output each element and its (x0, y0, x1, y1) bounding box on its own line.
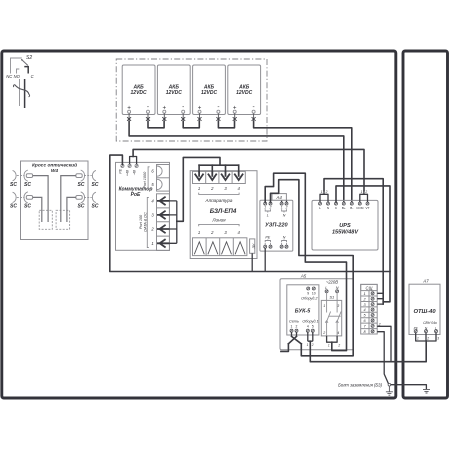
svg-text:155W/48V: 155W/48V (332, 230, 359, 236)
svg-text:Port 1000: Port 1000 (143, 171, 147, 188)
svg-text:SC: SC (78, 204, 85, 210)
svg-text:1: 1 (361, 190, 363, 194)
svg-text:4: 4 (337, 331, 339, 335)
svg-text:А4: А4 (276, 195, 283, 200)
svg-text:УЗП-220: УЗП-220 (265, 223, 288, 229)
svg-text:N: N (283, 236, 286, 240)
svg-text:2: 2 (269, 205, 272, 209)
svg-text:VT: VT (366, 206, 370, 210)
svg-text:NO: NO (14, 74, 21, 79)
svg-text:4: 4 (307, 325, 309, 329)
svg-text:SC: SC (78, 182, 85, 188)
svg-text:Оборуд.1: Оборуд.1 (302, 319, 318, 323)
svg-text:PE: PE (265, 236, 270, 240)
svg-text:2: 2 (337, 343, 340, 347)
svg-text:+48: +48 (126, 170, 130, 176)
svg-text:N: N (336, 286, 339, 290)
svg-text:B-: B- (350, 206, 353, 210)
svg-text:12VDC: 12VDC (166, 90, 183, 96)
svg-text:1: 1 (417, 336, 419, 340)
svg-text:2: 2 (311, 343, 314, 347)
svg-text:1: 1 (198, 186, 200, 191)
svg-text:1: 1 (281, 205, 283, 209)
svg-text:-: - (217, 104, 219, 111)
svg-text:БУК-5: БУК-5 (295, 309, 311, 315)
svg-text:N: N (327, 206, 329, 210)
svg-text:SC: SC (24, 204, 31, 210)
svg-text:5: 5 (312, 325, 314, 329)
svg-text:W4: W4 (51, 168, 59, 174)
svg-text:L: L (325, 286, 327, 290)
svg-text:B+: B+ (342, 206, 346, 210)
svg-text:Port 100: Port 100 (139, 214, 143, 229)
svg-text:4: 4 (364, 308, 366, 312)
svg-text:DATA & DC: DATA & DC (144, 212, 148, 232)
svg-text:ОТШ-40: ОТШ-40 (413, 309, 436, 315)
svg-text:СВН 04о: СВН 04о (423, 321, 437, 325)
svg-text:N: N (283, 214, 286, 218)
svg-text:-48: -48 (133, 170, 137, 175)
svg-text:2: 2 (378, 322, 381, 326)
svg-text:2: 2 (325, 190, 328, 194)
svg-text:-: - (147, 104, 149, 111)
svg-text:1: 1 (364, 292, 366, 296)
svg-text:10: 10 (312, 292, 316, 296)
svg-text:СЩ: СЩ (366, 286, 373, 291)
svg-text:9: 9 (307, 292, 309, 296)
svg-text:БЗЛ-ЕП4: БЗЛ-ЕП4 (210, 208, 237, 215)
svg-text:-: - (182, 104, 184, 111)
svg-text:ЗУ: ЗУ (251, 243, 256, 248)
svg-text:А7: А7 (422, 279, 429, 284)
svg-text:3: 3 (437, 336, 439, 340)
svg-text:Кросс оптический: Кросс оптический (32, 162, 77, 169)
svg-text:3: 3 (337, 304, 339, 308)
svg-text:PE: PE (119, 168, 123, 173)
svg-text:12VDC: 12VDC (236, 90, 253, 96)
svg-text:NC: NC (6, 74, 13, 79)
svg-text:1: 1 (291, 325, 293, 329)
svg-text:SC: SC (92, 182, 99, 188)
svg-text:1: 1 (307, 343, 309, 347)
svg-text:Болт заземления (БЗ): Болт заземления (БЗ) (338, 382, 382, 387)
svg-text:L: L (267, 214, 269, 218)
svg-text:2: 2 (426, 336, 429, 340)
svg-text:~220В: ~220В (326, 280, 338, 285)
svg-text:А5: А5 (300, 274, 307, 279)
svg-text:Сеть: Сеть (289, 319, 299, 323)
svg-text:L: L (319, 206, 321, 210)
svg-text:2: 2 (285, 205, 288, 209)
svg-text:2: 2 (364, 190, 367, 194)
svg-text:Оборуд.2: Оборуд.2 (301, 296, 318, 300)
svg-text:1: 1 (323, 304, 325, 308)
svg-text:1: 1 (264, 205, 266, 209)
svg-text:1: 1 (151, 241, 153, 246)
svg-text:SC: SC (24, 182, 31, 188)
svg-text:SC: SC (10, 182, 17, 188)
svg-text:COM: COM (356, 206, 364, 210)
svg-text:1: 1 (198, 230, 200, 235)
svg-text:1: 1 (321, 190, 323, 194)
svg-text:SC: SC (92, 204, 99, 210)
svg-text:12VDC: 12VDC (131, 90, 148, 96)
svg-text:1: 1 (328, 343, 330, 347)
svg-text:Линия: Линия (211, 218, 226, 223)
svg-text:-: - (253, 104, 255, 111)
svg-text:S1: S1 (329, 295, 334, 300)
svg-text:PoE: PoE (131, 192, 141, 198)
svg-text:2: 2 (296, 325, 298, 329)
svg-text:UPS: UPS (339, 223, 351, 229)
svg-text:SC: SC (10, 204, 17, 210)
svg-text:Аппаратура: Аппаратура (205, 198, 233, 203)
svg-text:S2: S2 (26, 55, 32, 61)
svg-text:12VDC: 12VDC (201, 90, 218, 96)
svg-text:2: 2 (322, 331, 325, 335)
